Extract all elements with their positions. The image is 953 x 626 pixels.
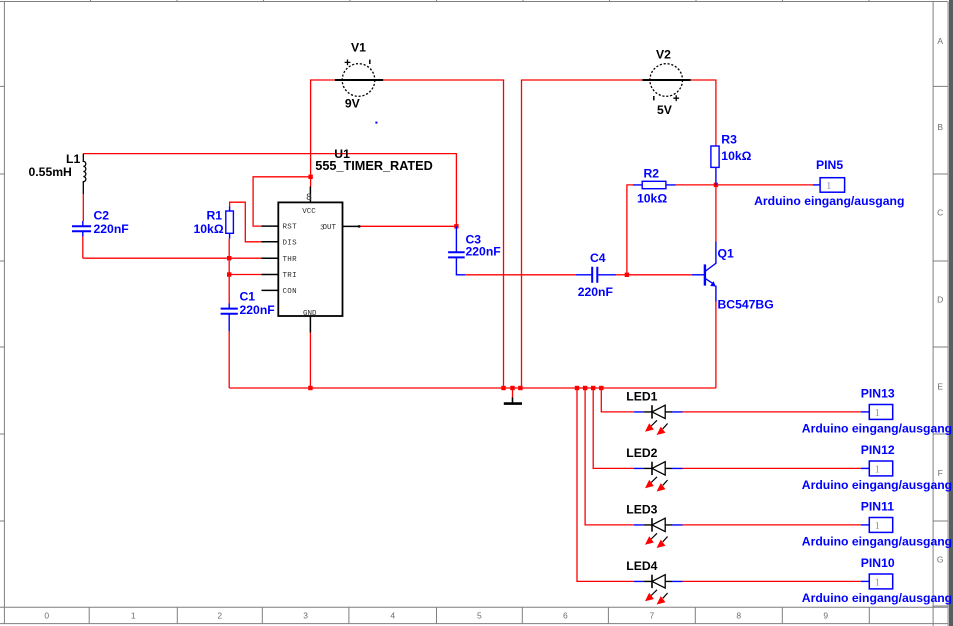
junction: rail LED3 bbox=[583, 386, 587, 390]
wire: L1 bottom to C2 bbox=[82, 194, 84, 221]
wire: C4 node to Q1 base bbox=[627, 274, 692, 276]
capacitor C3 bbox=[448, 226, 465, 274]
connector PIN13 bbox=[861, 405, 893, 420]
LED3 bbox=[634, 518, 683, 548]
LABELS blue bbox=[94, 133, 953, 606]
wire: R1 bottom THR TRI C1 column bbox=[228, 239, 230, 304]
wire: V1 plus to VCC bbox=[311, 80, 335, 187]
svg-text:8: 8 bbox=[306, 193, 312, 204]
connector PIN10 bbox=[861, 574, 893, 589]
svg-text:PIN12: PIN12 bbox=[861, 443, 895, 457]
junction: rail V1 bbox=[501, 386, 505, 390]
junction: rail V2 bbox=[518, 386, 522, 390]
svg-text:0: 0 bbox=[44, 611, 49, 621]
svg-text:R1: R1 bbox=[207, 209, 223, 223]
svg-text:220nF: 220nF bbox=[240, 303, 275, 317]
svg-text:DIS: DIS bbox=[283, 239, 298, 247]
junction: rail GND pin bbox=[308, 386, 312, 390]
voltage source V1 bbox=[335, 60, 383, 97]
LED4 bbox=[634, 575, 683, 605]
svg-text:PIN13: PIN13 bbox=[861, 387, 895, 401]
svg-text:Arduino eingang/ausgang: Arduino eingang/ausgang bbox=[802, 478, 952, 492]
pin end dot OUT bbox=[358, 225, 360, 227]
capacitor C4 bbox=[576, 267, 616, 283]
svg-text:GND: GND bbox=[303, 310, 317, 318]
connector PIN11 bbox=[861, 518, 893, 533]
svg-text:5: 5 bbox=[477, 611, 482, 621]
svg-text:PIN11: PIN11 bbox=[861, 500, 894, 514]
wire: 555 GND pin to rail bbox=[309, 333, 311, 388]
svg-text:220nF: 220nF bbox=[94, 222, 129, 236]
wire: C2 bottom to THR bbox=[83, 237, 262, 259]
svg-text:PIN5: PIN5 bbox=[816, 158, 843, 172]
LED1 bbox=[634, 405, 683, 435]
svg-text:OUT: OUT bbox=[323, 224, 337, 232]
svg-text:BC547BG: BC547BG bbox=[718, 298, 774, 312]
svg-text:Arduino eingang/ausgang: Arduino eingang/ausgang bbox=[802, 591, 952, 605]
svg-text:10kΩ: 10kΩ bbox=[721, 149, 751, 163]
LABELS black bbox=[29, 41, 673, 573]
svg-text:C: C bbox=[937, 208, 943, 218]
junction: R3 / R2 / PIN5 / collector bbox=[714, 183, 718, 187]
svg-text:3: 3 bbox=[303, 611, 308, 621]
stray blue dot bbox=[375, 122, 377, 124]
svg-text:7: 7 bbox=[650, 611, 655, 621]
ground bbox=[504, 397, 522, 403]
connector PIN12 bbox=[861, 461, 893, 476]
svg-text:F: F bbox=[938, 468, 943, 478]
connector PIN5 bbox=[813, 178, 845, 193]
wire: ground stub bbox=[512, 388, 514, 397]
inductor L1 bbox=[83, 154, 86, 195]
svg-text:E: E bbox=[937, 382, 943, 392]
junction: rail LED1 bbox=[599, 386, 603, 390]
svg-text:R2: R2 bbox=[644, 166, 660, 180]
svg-text:1: 1 bbox=[875, 407, 881, 419]
wire: R2 right to node bbox=[676, 184, 716, 186]
svg-text:TRI: TRI bbox=[283, 272, 297, 280]
wire: C3 bottom to C4 left bbox=[465, 274, 576, 276]
junction dots bbox=[227, 175, 718, 391]
svg-text:Arduino eingang/ausgang: Arduino eingang/ausgang bbox=[802, 535, 952, 549]
svg-text:1: 1 bbox=[875, 464, 881, 476]
junction: C4 / R2 / base bbox=[625, 273, 629, 277]
svg-text:LED2: LED2 bbox=[626, 446, 657, 460]
svg-text:1: 1 bbox=[875, 520, 881, 532]
transistor Q1 bbox=[692, 242, 716, 302]
svg-text:R3: R3 bbox=[721, 133, 737, 147]
junction: OUT / C3 bbox=[454, 224, 458, 228]
svg-text:9V: 9V bbox=[345, 97, 361, 111]
svg-text:220nF: 220nF bbox=[578, 285, 613, 299]
svg-text:THR: THR bbox=[283, 256, 298, 264]
svg-text:6: 6 bbox=[563, 611, 568, 621]
wire: C4 right lead to node bbox=[616, 274, 627, 276]
svg-text:Arduino eingang/ausgang: Arduino eingang/ausgang bbox=[754, 194, 904, 208]
svg-text:V1: V1 bbox=[351, 41, 366, 55]
resistor R1 bbox=[226, 207, 234, 239]
capacitor C2 bbox=[72, 221, 91, 237]
svg-text:9: 9 bbox=[823, 611, 828, 621]
svg-text:D: D bbox=[937, 294, 943, 304]
wire: TRI bbox=[229, 274, 261, 276]
svg-text:1: 1 bbox=[875, 577, 881, 589]
svg-text:CON: CON bbox=[283, 288, 297, 296]
LED2 bbox=[634, 462, 683, 492]
wire: C1 bottom to rail bbox=[228, 331, 230, 388]
svg-text:10kΩ: 10kΩ bbox=[637, 191, 667, 205]
wire: R1 top to DIS bbox=[230, 202, 262, 242]
svg-text:1: 1 bbox=[131, 611, 136, 621]
junction: rail ground bbox=[510, 386, 514, 390]
resistor R3 bbox=[711, 146, 719, 185]
resistor R2 bbox=[633, 181, 676, 188]
svg-text:G: G bbox=[937, 555, 944, 565]
svg-text:LED3: LED3 bbox=[626, 502, 657, 516]
svg-text:Arduino eingang/ausgang: Arduino eingang/ausgang bbox=[802, 422, 952, 436]
svg-text:A: A bbox=[937, 36, 943, 46]
junction: TRI bbox=[227, 272, 231, 276]
svg-text:0.55mH: 0.55mH bbox=[29, 165, 72, 179]
junction: THR bbox=[227, 256, 231, 260]
wire: V2 plus to R3 top bbox=[691, 80, 716, 146]
junction: rail LED4 bbox=[575, 386, 579, 390]
svg-text:LED4: LED4 bbox=[626, 559, 657, 573]
voltage source V2 bbox=[642, 64, 690, 101]
wire: R3 node to PIN5 bbox=[716, 184, 813, 186]
svg-text:8: 8 bbox=[736, 611, 741, 621]
junction: rail LED2 bbox=[591, 386, 595, 390]
svg-text:10kΩ: 10kΩ bbox=[194, 222, 224, 236]
wire: rail to LED4 bbox=[577, 388, 861, 581]
wire: node to Q1 collector bbox=[715, 185, 717, 242]
svg-text:L1: L1 bbox=[66, 152, 80, 166]
svg-text:555_TIMER_RATED: 555_TIMER_RATED bbox=[315, 159, 433, 173]
svg-text:C1: C1 bbox=[240, 290, 256, 304]
svg-text:C4: C4 bbox=[590, 251, 606, 265]
capacitor C1 bbox=[221, 304, 238, 332]
wire: R2 left down to C4 node bbox=[627, 185, 633, 275]
svg-text:LED1: LED1 bbox=[626, 389, 657, 403]
svg-text:220nF: 220nF bbox=[466, 244, 501, 258]
svg-text:B: B bbox=[937, 122, 943, 132]
wire: V2 minus to ground rail bbox=[522, 80, 643, 388]
wire: rail to LED3 bbox=[585, 388, 861, 525]
svg-text:5V: 5V bbox=[657, 103, 673, 117]
svg-text:VCC: VCC bbox=[302, 208, 316, 216]
wire: Q1 emitter to ground rail bbox=[715, 302, 717, 389]
wire: rail to LED2 bbox=[593, 388, 861, 468]
wire: OUT node to L1 top bbox=[83, 154, 456, 227]
svg-text:3: 3 bbox=[320, 225, 325, 233]
junction: VCC / RST bbox=[308, 175, 312, 179]
svg-text:V2: V2 bbox=[656, 48, 671, 62]
svg-text:1: 1 bbox=[826, 180, 832, 192]
wire: VCC node to RST bbox=[253, 177, 311, 226]
svg-text:RST: RST bbox=[283, 224, 298, 232]
svg-text:2: 2 bbox=[217, 611, 222, 621]
svg-text:C2: C2 bbox=[94, 209, 110, 223]
wire: ground rail bbox=[229, 387, 716, 389]
svg-text:4: 4 bbox=[390, 611, 395, 621]
svg-text:PIN10: PIN10 bbox=[861, 556, 895, 570]
wire: rail to LED1 bbox=[601, 388, 861, 412]
IC U1 555 timer bbox=[262, 187, 360, 333]
svg-text:Q1: Q1 bbox=[718, 247, 734, 261]
wire: V1 minus to ground rail bbox=[383, 80, 503, 388]
